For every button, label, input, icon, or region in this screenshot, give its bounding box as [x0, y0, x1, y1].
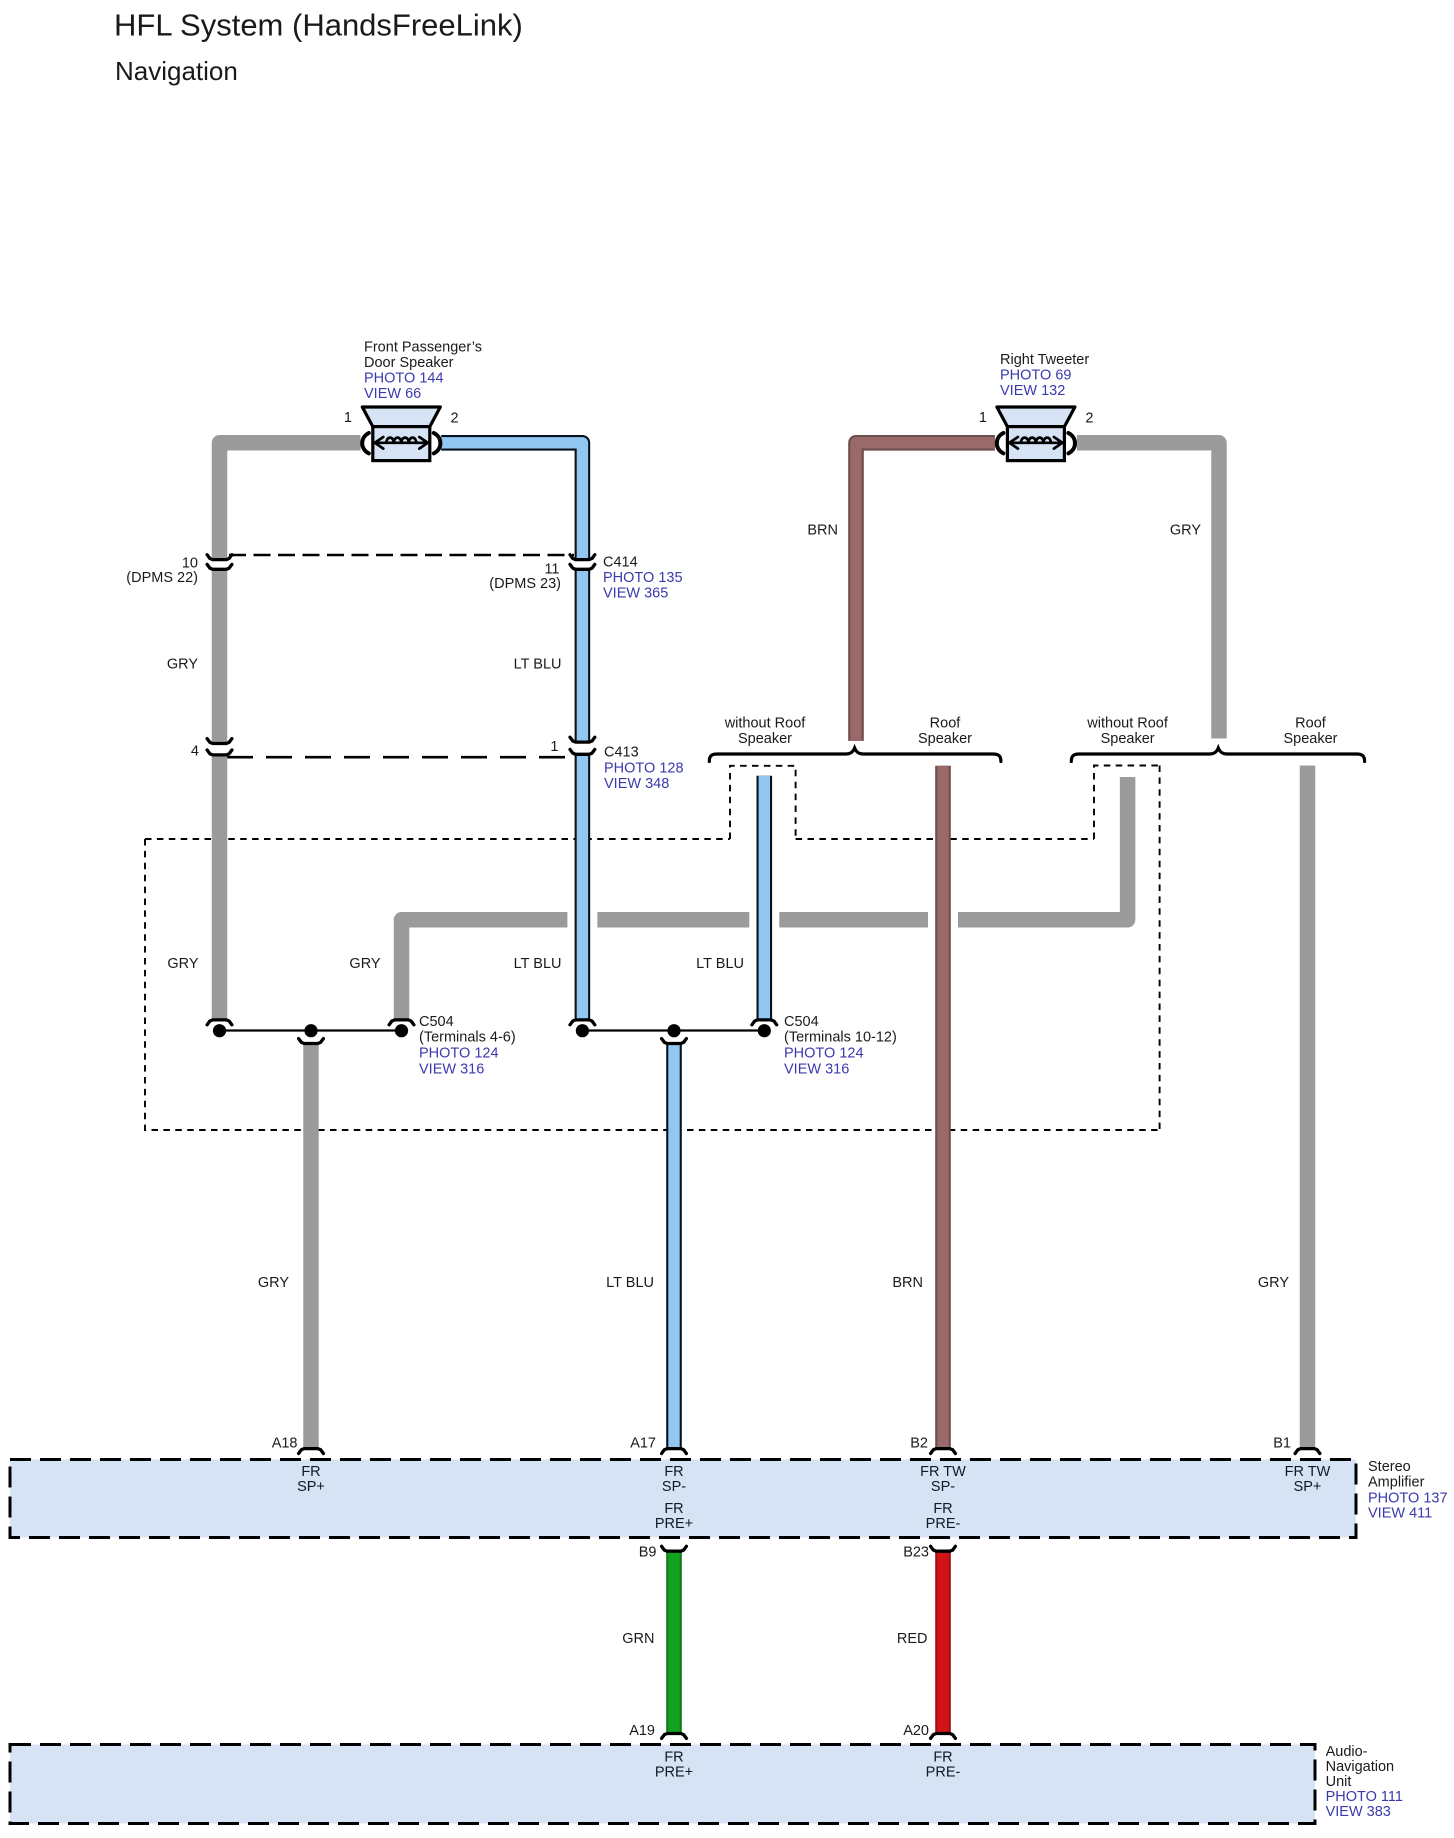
- wire GRY roof speaker down to amplifier B1: [1300, 766, 1316, 1448]
- svg-text:GRY: GRY: [167, 956, 198, 972]
- connector C414 arcs (gray wire, cavity 10): [207, 555, 232, 560]
- svg-text:10: 10: [182, 555, 198, 571]
- svg-text:Right Tweeter: Right Tweeter: [1000, 352, 1089, 368]
- svg-text:RED: RED: [897, 1631, 928, 1647]
- svg-text:Amplifier: Amplifier: [1368, 1474, 1425, 1490]
- connector C413 dashed line: [227, 756, 574, 759]
- svg-text:BRN: BRN: [892, 1275, 923, 1291]
- svg-text:4: 4: [191, 744, 199, 760]
- svg-text:Speaker: Speaker: [1283, 731, 1337, 747]
- svg-text:GRY: GRY: [258, 1275, 289, 1291]
- svg-text:B1: B1: [1273, 1436, 1291, 1452]
- Stereo Amplifier box: [10, 1460, 1356, 1538]
- svg-text:PRE-: PRE-: [926, 1764, 961, 1780]
- svg-text:GRY: GRY: [1170, 523, 1201, 539]
- svg-text:FR: FR: [664, 1749, 683, 1765]
- svg-text:1: 1: [550, 739, 558, 755]
- wire BRN roof speaker down to amplifier B2: [935, 766, 951, 1448]
- junction dot x=674: [667, 1024, 680, 1037]
- svg-text:PRE+: PRE+: [655, 1764, 693, 1780]
- svg-text:Audio-: Audio-: [1326, 1744, 1368, 1760]
- svg-text:VIEW 66: VIEW 66: [364, 386, 421, 402]
- junction dot x=582.4: [576, 1024, 589, 1037]
- svg-text:C504: C504: [784, 1014, 819, 1030]
- junction dot x=764.3: [758, 1024, 771, 1037]
- wire LT BLU door speaker pin2 down to C504: [441, 443, 582, 559]
- svg-text:PHOTO 128: PHOTO 128: [604, 760, 684, 776]
- wire LT BLU C504 down to amplifier A17: [666, 1044, 682, 1447]
- wire RED amplifier B23 down to nav unit A20: [935, 1552, 951, 1732]
- svg-text:VIEW 132: VIEW 132: [1000, 383, 1065, 399]
- svg-text:LT BLU: LT BLU: [606, 1275, 654, 1291]
- svg-text:PHOTO 137: PHOTO 137: [1368, 1490, 1448, 1506]
- wire-end arcs below amplifier (B9, B23): [662, 1546, 687, 1551]
- svg-text:PHOTO 111: PHOTO 111: [1326, 1789, 1403, 1805]
- svg-text:C504: C504: [419, 1014, 454, 1030]
- svg-text:(DPMS 23): (DPMS 23): [489, 576, 561, 592]
- wire-end arcs at C504 buses: [207, 1020, 232, 1025]
- wire BRN right tweeter pin1 down to brace: [856, 443, 995, 741]
- svg-text:2: 2: [1085, 411, 1093, 427]
- svg-text:SP-: SP-: [662, 1479, 686, 1495]
- svg-text:VIEW 348: VIEW 348: [604, 776, 669, 792]
- svg-text:FR: FR: [664, 1464, 683, 1480]
- Audio-Navigation Unit box: [10, 1745, 1315, 1824]
- svg-text:A20: A20: [903, 1723, 929, 1739]
- svg-text:PHOTO 69: PHOTO 69: [1000, 367, 1071, 383]
- svg-text:B23: B23: [903, 1544, 929, 1560]
- svg-text:FR TW: FR TW: [1285, 1464, 1331, 1480]
- svg-text:A17: A17: [630, 1436, 656, 1452]
- svg-text:Roof: Roof: [930, 715, 962, 731]
- svg-text:VIEW 316: VIEW 316: [419, 1061, 484, 1077]
- svg-text:FR: FR: [933, 1749, 952, 1765]
- svg-text:PHOTO 144: PHOTO 144: [364, 370, 444, 386]
- wire GRY door speaker pin1 down to C504: [220, 443, 361, 559]
- brace tweeter pin2 options: [1071, 748, 1364, 762]
- svg-text:1: 1: [979, 410, 987, 426]
- svg-text:(Terminals 4-6): (Terminals 4-6): [419, 1030, 516, 1046]
- svg-text:PHOTO 124: PHOTO 124: [419, 1046, 499, 1062]
- wire GRY right tweeter pin2 down to brace: [1077, 443, 1219, 739]
- connector C414 dashed line: [229, 554, 574, 557]
- svg-text:B2: B2: [910, 1436, 928, 1452]
- wire GRY C504 down to amplifier A18: [303, 1044, 319, 1447]
- brace tweeter pin1 options: [709, 748, 1001, 762]
- svg-text:Door Speaker: Door Speaker: [364, 355, 454, 371]
- svg-text:without Roof: without Roof: [1086, 715, 1169, 731]
- svg-text:FR: FR: [664, 1501, 683, 1517]
- svg-text:PRE+: PRE+: [655, 1516, 693, 1532]
- junction dot x=219.5: [213, 1024, 226, 1037]
- junction dot x=401.5: [395, 1024, 408, 1037]
- svg-text:B9: B9: [639, 1544, 657, 1560]
- connector C413 arcs (blue wire, cavity 1): [570, 737, 595, 742]
- svg-text:PRE-: PRE-: [926, 1516, 961, 1532]
- speaker: right tweeter: [997, 407, 1075, 461]
- connector C414 arcs (blue wire, cavity 11): [570, 555, 595, 560]
- svg-text:GRN: GRN: [622, 1631, 654, 1647]
- dashed harness option outline: [145, 766, 1160, 1131]
- svg-text:VIEW 383: VIEW 383: [1326, 1804, 1391, 1820]
- svg-text:PHOTO 124: PHOTO 124: [784, 1046, 864, 1062]
- svg-text:GRY: GRY: [349, 956, 380, 972]
- svg-text:(DPMS 22): (DPMS 22): [126, 570, 198, 586]
- svg-text:SP+: SP+: [1294, 1479, 1322, 1495]
- wire LT BLU roof option down to C504: [756, 776, 772, 1019]
- svg-text:2: 2: [451, 411, 459, 427]
- svg-text:FR TW: FR TW: [920, 1464, 966, 1480]
- svg-text:Speaker: Speaker: [1101, 731, 1155, 747]
- wire GRY horizontal run from right dashed box to C504: [402, 777, 1128, 1019]
- svg-text:LT BLU: LT BLU: [514, 956, 562, 972]
- svg-text:C413: C413: [604, 745, 639, 761]
- svg-text:BRN: BRN: [807, 523, 838, 539]
- junction dot x=311: [304, 1024, 317, 1037]
- svg-text:(Terminals 10-12): (Terminals 10-12): [784, 1030, 897, 1046]
- svg-text:Navigation: Navigation: [115, 56, 238, 86]
- wire GRN amplifier B9 down to nav unit A19: [666, 1552, 682, 1732]
- svg-text:without Roof: without Roof: [724, 715, 807, 731]
- svg-text:Roof: Roof: [1295, 715, 1327, 731]
- svg-text:SP-: SP-: [931, 1479, 955, 1495]
- C504 terminals 4-6 bus: [220, 1029, 402, 1031]
- svg-text:FR: FR: [933, 1501, 952, 1517]
- svg-text:VIEW 365: VIEW 365: [603, 585, 668, 601]
- svg-text:PHOTO 135: PHOTO 135: [603, 570, 683, 586]
- svg-text:A19: A19: [629, 1723, 655, 1739]
- svg-text:Speaker: Speaker: [738, 731, 792, 747]
- svg-text:FR: FR: [301, 1464, 320, 1480]
- svg-text:SP+: SP+: [297, 1479, 325, 1495]
- svg-text:VIEW 316: VIEW 316: [784, 1061, 849, 1077]
- svg-text:LT BLU: LT BLU: [514, 657, 562, 673]
- svg-text:GRY: GRY: [1258, 1275, 1289, 1291]
- connector C413 arcs (gray wire, cavity 4): [207, 739, 232, 744]
- svg-text:C414: C414: [603, 554, 638, 570]
- svg-text:GRY: GRY: [167, 657, 198, 673]
- svg-text:LT BLU: LT BLU: [696, 956, 744, 972]
- svg-text:VIEW 411: VIEW 411: [1368, 1505, 1432, 1521]
- speaker: front passenger door speaker: [362, 407, 440, 461]
- svg-text:A18: A18: [272, 1436, 298, 1452]
- svg-text:Unit: Unit: [1326, 1774, 1352, 1790]
- svg-text:Speaker: Speaker: [918, 731, 972, 747]
- wire-end arcs at nav unit top (A19, A20): [662, 1734, 687, 1739]
- svg-text:HFL System (HandsFreeLink): HFL System (HandsFreeLink): [114, 8, 523, 43]
- wire-end arcs at amplifier top: [299, 1449, 324, 1454]
- svg-text:1: 1: [344, 410, 352, 426]
- svg-text:Navigation: Navigation: [1326, 1759, 1395, 1775]
- svg-text:Front Passenger’s: Front Passenger’s: [364, 339, 482, 355]
- C504 terminals 10-12 bus: [582, 1029, 764, 1031]
- svg-text:Stereo: Stereo: [1368, 1459, 1411, 1475]
